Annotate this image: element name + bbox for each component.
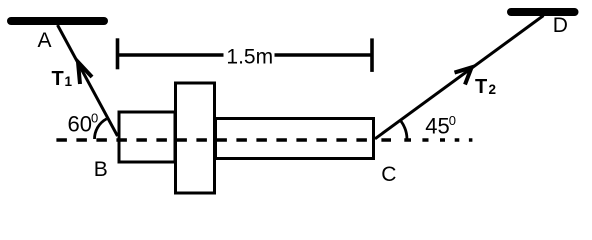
angle arc 45deg at C — [401, 121, 407, 139]
cable A-B — [58, 25, 118, 136]
dimension line 1.5m: right tick — [370, 38, 374, 72]
svg-text:D: D — [553, 14, 568, 37]
svg-text:1: 1 — [65, 74, 73, 89]
svg-text:T: T — [52, 68, 64, 90]
dimension line 1.5m: left horizontal segment — [118, 53, 224, 56]
dimension line 1.5m: left tick — [116, 38, 120, 69]
dimension line 1.5m: right horizontal segment — [275, 53, 373, 56]
collar rectangle (left sleeve on shaft) — [119, 112, 175, 162]
svg-text:60: 60 — [68, 111, 92, 136]
svg-text:A: A — [38, 29, 52, 52]
svg-text:T: T — [475, 76, 487, 98]
cable C-D — [375, 16, 544, 139]
centerline (dashed axis through shaft, left of C) — [56, 138, 375, 141]
angle arc 60deg at B — [95, 119, 107, 139]
svg-text:0: 0 — [449, 113, 456, 128]
ceiling anchor bar D — [511, 8, 575, 16]
svg-text:B: B — [94, 158, 108, 181]
svg-text:2: 2 — [489, 82, 497, 97]
tension arrowhead T1 (points up cable toward A) — [78, 62, 92, 84]
tension arrowhead T2 (points up cable toward D) — [455, 67, 472, 84]
shaft rectangle (long right body) — [216, 119, 374, 159]
svg-text:0: 0 — [91, 111, 98, 126]
ceiling anchor bar A — [11, 17, 104, 25]
svg-text:1.5m: 1.5m — [226, 45, 273, 68]
centerline (dashed axis extension right of C) — [381, 138, 472, 141]
svg-text:45: 45 — [425, 113, 449, 138]
svg-text:C: C — [381, 163, 396, 186]
flange rectangle (tall center disk) — [176, 83, 215, 193]
